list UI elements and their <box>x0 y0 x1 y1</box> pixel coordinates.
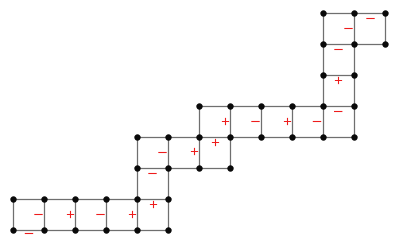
node vertex (2,0) <box>72 227 78 233</box>
wire edge between T1 and T2 (x=44.5) <box>44 200 46 231</box>
wire edge row y=75 (top of T15, bottom of T16) <box>324 75 355 77</box>
node vertex (11,4) <box>351 103 357 109</box>
sign + on edge T5|T6 <box>150 201 157 208</box>
node vertex (9,4) <box>289 103 295 109</box>
sign - on edge T14|T15 <box>334 111 342 113</box>
node vertex (4,3) <box>134 134 140 140</box>
node vertex (0,0) <box>10 227 16 233</box>
sign - on south edge of tile T1 <box>25 233 33 235</box>
node vertex (11,5) <box>351 72 357 78</box>
wire edge row y=13 (top of T17-T18) <box>324 13 386 15</box>
wire edge between T3 and T4 (x=106.5) <box>106 200 108 231</box>
node vertex (0,1) <box>10 196 16 202</box>
wire edge T8-T9 / left edge of T10 (x=199.5) <box>199 107 201 169</box>
node vertex (6,4) <box>196 103 202 109</box>
node vertex (4,1) <box>134 196 140 202</box>
node vertex (5,0) <box>165 227 171 233</box>
node vertex (12,6) <box>382 41 388 47</box>
node vertex (5,2) <box>165 165 171 171</box>
node vertex (11,6) <box>351 41 357 47</box>
wire edge row y=137 (top of T7-T9, bottom of T10-T14) <box>138 137 355 139</box>
node vertex (10,4) <box>320 103 326 109</box>
node vertex (7,3) <box>227 134 233 140</box>
wire right edge of T14,T15,T16 / edge T17-T18 (x=354.5) <box>354 14 356 138</box>
sign + on edge T9|T10 <box>212 139 219 146</box>
node vertex (8,3) <box>258 134 264 140</box>
node vertex (9,3) <box>289 134 295 140</box>
node vertex (4,0) <box>134 227 140 233</box>
node vertex (10,5) <box>320 72 326 78</box>
node vertex (12,7) <box>382 10 388 16</box>
sign + on edge T15|T16 <box>335 77 342 84</box>
node vertex (10,3) <box>320 134 326 140</box>
node vertex (4,2) <box>134 165 140 171</box>
node vertex (10,7) <box>320 10 326 16</box>
wire edge between T11 and T12 (x=261.5) <box>261 107 263 138</box>
node vertex (7,2) <box>227 165 233 171</box>
sign + on edge T2|T3 <box>67 211 74 218</box>
wire edge T13-T14 / left edge of T15,T16,T17 (x=323.5) <box>323 14 325 138</box>
wire edge between T12 and T13 (x=292.5) <box>292 107 294 138</box>
wire edge row y=168 (top of T6, bottom of T7-T9) <box>138 168 231 170</box>
sign - on edge T16|T17 <box>334 49 342 51</box>
wire right edge of T9 / edge T10-T11 (x=230.5) <box>230 107 232 169</box>
sign + on edge T4|T5 <box>129 211 136 218</box>
sign - on north edge of tile T18 <box>366 18 374 20</box>
node vertex (10,6) <box>320 41 326 47</box>
wire edge row y=106 (top of T10-T14, bottom of T15) <box>200 106 355 108</box>
sign - on edge T17|T18 <box>344 28 352 30</box>
node vertex (11,7) <box>351 10 357 16</box>
node vertex (8,4) <box>258 103 264 109</box>
wire edge between T2 and T3 (x=75.5) <box>75 200 77 231</box>
sign + on edge T10|T11 <box>222 118 229 125</box>
sign - on edge T1|T2 <box>34 214 42 216</box>
sign - on edge T7|T8 <box>158 152 166 154</box>
wire left edge of tile T1 (x=13.5) <box>13 200 15 231</box>
wire left edge of tiles T5,T6,T7 (x=137.5) <box>137 138 139 231</box>
wire right edge of tile T18 (x=385.5) <box>385 14 387 45</box>
wire edge row y=44 (top of T16, bottom of T17-T18) <box>324 44 386 46</box>
node vertex (1,1) <box>41 196 47 202</box>
node vertex (1,0) <box>41 227 47 233</box>
sign + on edge T12|T13 <box>284 118 291 125</box>
node vertex (6,2) <box>196 165 202 171</box>
sign - on edge T6|T7 <box>148 173 156 175</box>
sign + on edge T8|T9 <box>191 148 198 155</box>
node vertex (11,3) <box>351 134 357 140</box>
wire bottom edge of tiles T1-T5 (y=230) <box>14 230 169 232</box>
sign - on edge T13|T14 <box>313 121 321 123</box>
node vertex (3,0) <box>103 227 109 233</box>
node vertex (5,1) <box>165 196 171 202</box>
sign - on edge T11|T12 <box>251 121 259 123</box>
node vertex (2,1) <box>72 196 78 202</box>
node vertex (5,3) <box>165 134 171 140</box>
wire top edge of tiles T1-T5 / bottom of T6 (y=199) <box>14 199 169 201</box>
node vertex (6,3) <box>196 134 202 140</box>
node vertex (3,1) <box>103 196 109 202</box>
wire right edge of T5,T6 / edge T7-T8 (x=168.5) <box>168 138 170 231</box>
node vertex (7,4) <box>227 103 233 109</box>
sign - on edge T3|T4 <box>96 214 104 216</box>
